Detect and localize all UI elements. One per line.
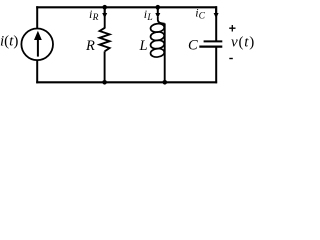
current arrow iR head xyxy=(102,13,107,18)
wire: bottom rail xyxy=(36,81,217,83)
junction dot bottom of inductor branch xyxy=(163,80,168,85)
svg-text:v(t): v(t) xyxy=(231,35,255,51)
wire: right branch upper segment xyxy=(215,6,217,41)
junction dot bottom of resistor branch xyxy=(102,80,107,85)
current source I1 arrow shaft xyxy=(37,38,39,57)
label minus sign xyxy=(229,58,233,60)
wire: resistor branch upper segment xyxy=(104,7,106,28)
node B junction dot (top of inductor branch) xyxy=(156,5,161,10)
capacitor C bottom plate xyxy=(199,45,222,47)
current source I1 circle xyxy=(21,29,53,61)
capacitor C top plate xyxy=(204,40,223,42)
inductor L loop 3 xyxy=(150,39,165,49)
wire: top rail from node A to top-right corner xyxy=(36,6,217,8)
current arrow iC head xyxy=(214,13,219,18)
svg-text:C: C xyxy=(188,38,198,54)
wire: right branch lower segment xyxy=(215,47,217,83)
current arrow iC shaft xyxy=(215,9,217,15)
inductor L loop 4 xyxy=(150,48,165,58)
resistor R zigzag xyxy=(100,28,110,52)
node A junction dot (top of resistor branch) xyxy=(102,5,107,10)
wire: inductor branch entry stub xyxy=(157,7,159,10)
wire: resistor branch lower segment xyxy=(104,51,106,82)
inductor L loop 2 xyxy=(150,31,165,41)
wire: left branch lower segment xyxy=(36,60,38,83)
svg-text:C: C xyxy=(199,12,206,22)
svg-text:i(t): i(t) xyxy=(0,34,18,50)
svg-text:R: R xyxy=(92,13,99,23)
svg-text:L: L xyxy=(146,13,152,23)
current arrow iL shaft xyxy=(157,9,159,15)
inductor L loop 1 xyxy=(150,23,165,33)
current arrow iR shaft xyxy=(104,9,106,15)
inductor L entry hook xyxy=(158,17,165,24)
label plus sign xyxy=(229,25,235,32)
svg-text:R: R xyxy=(85,38,95,54)
wire: left branch upper segment xyxy=(36,6,38,29)
current arrow iL head xyxy=(155,13,160,18)
inductor L right strand / exit wire xyxy=(164,23,166,82)
svg-text:L: L xyxy=(139,38,148,54)
current source I1 arrowhead xyxy=(34,31,42,40)
